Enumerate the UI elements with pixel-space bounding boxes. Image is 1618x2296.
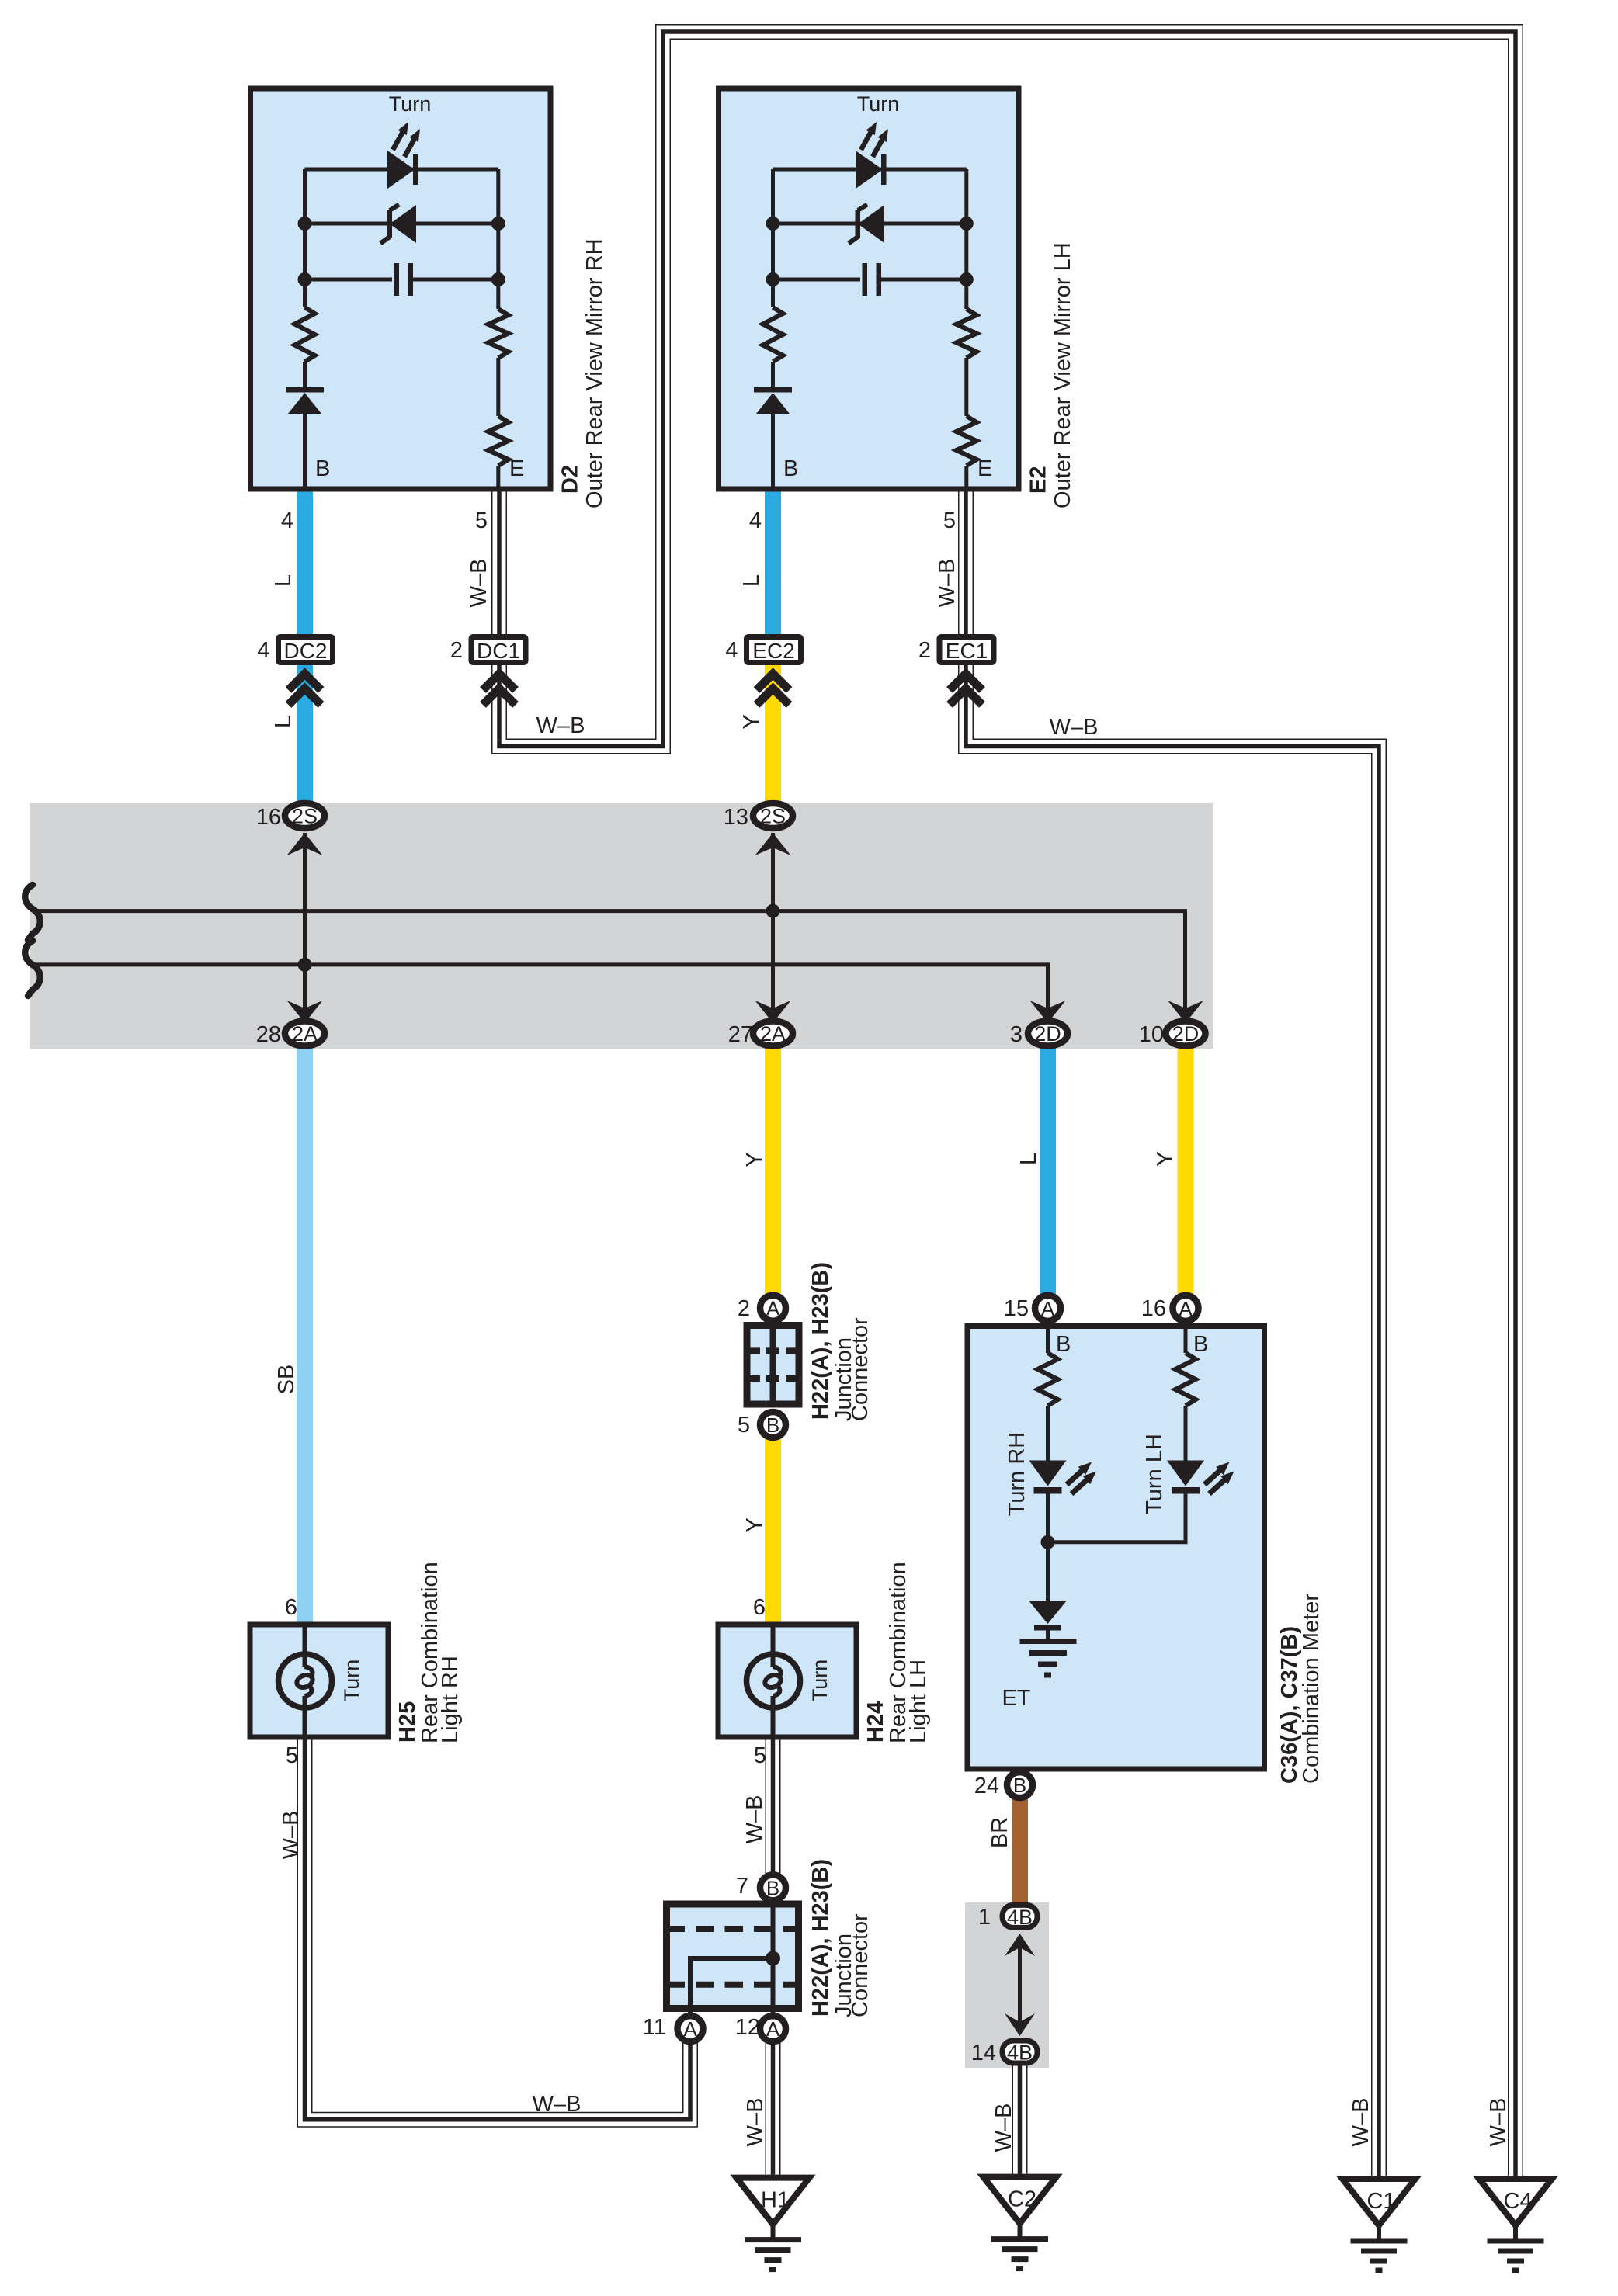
junction node on upper bus bbox=[766, 904, 780, 918]
svg-text:4: 4 bbox=[257, 638, 269, 663]
svg-text:W–B: W–B bbox=[742, 1795, 767, 1844]
svg-text:27: 27 bbox=[728, 1022, 753, 1047]
connector DC2 (pin 4) bbox=[257, 637, 332, 664]
svg-text:C1: C1 bbox=[1366, 2189, 1395, 2214]
ground H1 bbox=[737, 2178, 810, 2270]
svg-text:W–B: W–B bbox=[1486, 2098, 1511, 2147]
wire Y from 2D pin 10 to combination meter pin 16 bbox=[1178, 1034, 1194, 1309]
wire L from E2 pin 4 to connector EC2 bbox=[765, 489, 781, 650]
svg-text:W–B: W–B bbox=[935, 559, 960, 608]
svg-text:2S: 2S bbox=[292, 805, 318, 828]
internal ground in meter bbox=[1020, 1642, 1077, 1676]
svg-text:Turn RH: Turn RH bbox=[1005, 1432, 1029, 1517]
arrow into 2S pin 16 bbox=[287, 833, 323, 855]
connector 2S (pin 16) bbox=[285, 803, 325, 828]
svg-text:Combination Meter: Combination Meter bbox=[1299, 1594, 1324, 1784]
junction connector pin A (12) bbox=[760, 2016, 786, 2041]
svg-text:L: L bbox=[271, 574, 296, 587]
svg-text:L: L bbox=[1016, 1153, 1041, 1165]
svg-text:Y: Y bbox=[1153, 1151, 1178, 1166]
bus wire upper (2S-13 to 2D-10) bbox=[34, 911, 1186, 1023]
svg-text:BR: BR bbox=[988, 1817, 1012, 1848]
svg-text:3: 3 bbox=[1010, 1022, 1023, 1047]
meter pin B (24, ET) bbox=[1007, 1772, 1033, 1798]
wire resistor to LED turn LH bbox=[1184, 1406, 1188, 1462]
svg-text:B: B bbox=[1013, 1774, 1026, 1797]
svg-text:4: 4 bbox=[725, 638, 738, 663]
junction connector H22(A) H23(B) upper block bbox=[747, 1326, 799, 1405]
svg-text:2A: 2A bbox=[760, 1022, 786, 1046]
connector DC1 (pin 2) bbox=[450, 637, 526, 664]
junction connector pin A (2) bbox=[760, 1295, 786, 1321]
chevron arrow below EC2 bbox=[757, 674, 790, 705]
svg-text:W–B: W–B bbox=[743, 2098, 768, 2147]
ground C1 bbox=[1342, 2179, 1415, 2270]
svg-text:5: 5 bbox=[475, 508, 488, 533]
svg-text:H25: H25 bbox=[395, 1701, 420, 1743]
svg-text:4B: 4B bbox=[1007, 1906, 1033, 1929]
chevron arrow below DC2 bbox=[289, 674, 321, 705]
svg-text:4B: 4B bbox=[1007, 2041, 1033, 2065]
svg-text:B: B bbox=[1056, 1332, 1071, 1357]
connector EC2 (pin 4) bbox=[725, 637, 800, 664]
svg-text:A: A bbox=[683, 2017, 697, 2041]
svg-text:2D: 2D bbox=[1034, 1022, 1061, 1046]
wire Y from junction connector pin 5 to H24 pin 6 bbox=[765, 1425, 781, 1627]
svg-text:Light LH: Light LH bbox=[906, 1660, 931, 1743]
svg-text:Y: Y bbox=[739, 714, 764, 729]
svg-text:H1: H1 bbox=[761, 2188, 790, 2213]
connector 2A (pin 27) bbox=[753, 1021, 793, 1046]
svg-text:16: 16 bbox=[1141, 1296, 1166, 1321]
svg-text:B: B bbox=[1193, 1332, 1208, 1357]
connector 4B (pin 1) bbox=[1002, 1905, 1037, 1929]
band wire 2S-13 to 2A-27 bbox=[771, 833, 775, 1023]
svg-text:L: L bbox=[739, 574, 764, 587]
junction connector H22(A) H23(B) lower block bbox=[667, 1888, 799, 2029]
wire BR from combination meter pin 24 to connector 1 4B bbox=[1012, 1785, 1028, 1916]
svg-text:12: 12 bbox=[735, 2015, 760, 2040]
combination meter block C36(A) C37(B) bbox=[967, 1323, 1265, 1769]
svg-text:16: 16 bbox=[256, 805, 281, 830]
ground C4 bbox=[1479, 2179, 1552, 2270]
connector 2D (pin 10) bbox=[1166, 1021, 1206, 1046]
svg-text:A: A bbox=[766, 1297, 780, 1320]
connector 2S (pin 13) bbox=[753, 803, 793, 828]
junction connector pin B (7) bbox=[760, 1875, 786, 1900]
connector EC1 (pin 2) bbox=[918, 637, 994, 664]
svg-text:5: 5 bbox=[943, 508, 956, 533]
svg-text:1: 1 bbox=[978, 1905, 991, 1930]
wire W-B from junction connector pin 12 to ground H1 bbox=[766, 2029, 781, 2175]
junction connector pin B (5) bbox=[760, 1412, 786, 1438]
connector 2A (pin 28) bbox=[285, 1021, 325, 1046]
svg-text:A: A bbox=[1041, 1297, 1055, 1320]
svg-text:A: A bbox=[1179, 1297, 1193, 1320]
arrow into 2S pin 13 bbox=[755, 833, 791, 855]
shielded harness band bbox=[30, 803, 1213, 1049]
svg-text:Outer Rear View Mirror LH: Outer Rear View Mirror LH bbox=[1050, 242, 1075, 508]
svg-text:DC1: DC1 bbox=[477, 639, 520, 663]
wire Y from connector EC2 to 2S bbox=[765, 650, 781, 816]
resistor in meter turn LH circuit bbox=[1175, 1353, 1196, 1406]
connector 4B (pin 14) bbox=[1002, 2041, 1037, 2065]
arrow above 14 4B bbox=[1005, 2013, 1035, 2036]
svg-text:DC2: DC2 bbox=[283, 639, 327, 663]
svg-text:Y: Y bbox=[742, 1152, 767, 1167]
svg-text:2A: 2A bbox=[292, 1022, 318, 1046]
junction connector pin A (11) bbox=[678, 2016, 703, 2041]
svg-text:4: 4 bbox=[281, 508, 293, 533]
wire LED RH to junction bbox=[1046, 1488, 1050, 1542]
svg-text:EC1: EC1 bbox=[946, 639, 988, 663]
wire between 4B arrows bbox=[1018, 1947, 1022, 2023]
svg-text:EC2: EC2 bbox=[752, 639, 794, 663]
wire W-B from H25 pin 5 to junction connector pin 11 bbox=[305, 1737, 691, 2120]
wire LED LH to junction bbox=[1048, 1488, 1186, 1542]
svg-text:15: 15 bbox=[1004, 1296, 1029, 1321]
wire Y from 2A pin 27 to junction connector pin 2 bbox=[765, 1034, 781, 1309]
svg-text:W–B: W–B bbox=[991, 2104, 1016, 2152]
arrow into 2A pin 27 bbox=[755, 1001, 791, 1023]
svg-text:C4: C4 bbox=[1503, 2189, 1532, 2214]
LED turn RH in meter bbox=[1029, 1461, 1097, 1494]
svg-text:A: A bbox=[766, 2017, 780, 2041]
svg-text:H22(A), H23(B): H22(A), H23(B) bbox=[808, 1262, 833, 1420]
junction node in meter bbox=[1041, 1535, 1055, 1549]
rear combination light LH block H24 bbox=[718, 1595, 856, 1768]
svg-text:24: 24 bbox=[974, 1774, 999, 1798]
ground C2 bbox=[984, 2177, 1057, 2269]
svg-text:W–B: W–B bbox=[279, 1811, 304, 1860]
svg-text:W–B: W–B bbox=[533, 2092, 582, 2117]
svg-text:Turn LH: Turn LH bbox=[1142, 1434, 1167, 1514]
arrow into 2D pin 3 bbox=[1030, 1001, 1066, 1023]
bus wire lower (2S-16 to 2D-3) bbox=[34, 965, 1048, 1023]
svg-text:SB: SB bbox=[274, 1365, 299, 1395]
svg-text:7: 7 bbox=[736, 1874, 748, 1899]
svg-text:W–B: W–B bbox=[1050, 715, 1099, 740]
arrow into 2D pin 10 bbox=[1168, 1001, 1203, 1023]
svg-text:ET: ET bbox=[1002, 1686, 1030, 1711]
svg-text:2: 2 bbox=[738, 1296, 750, 1321]
svg-text:Light RH: Light RH bbox=[438, 1656, 463, 1743]
wire W-B from connector 14 4B to ground C2 bbox=[1012, 2052, 1028, 2174]
wire L from D2 pin 4 to connector DC2 and 2S bbox=[297, 489, 313, 816]
svg-text:W–B: W–B bbox=[467, 559, 491, 608]
meter pin A (15) bbox=[1035, 1295, 1061, 1321]
svg-text:5: 5 bbox=[738, 1413, 750, 1438]
wire junction to diode bbox=[1046, 1542, 1050, 1601]
svg-text:H24: H24 bbox=[863, 1701, 888, 1743]
svg-text:2D: 2D bbox=[1172, 1022, 1200, 1046]
outer rear view mirror LH block E2 bbox=[719, 88, 1019, 489]
svg-text:2S: 2S bbox=[760, 805, 786, 828]
svg-text:B: B bbox=[766, 1413, 779, 1437]
shield box around 4B connectors bbox=[965, 1902, 1049, 2068]
svg-text:2: 2 bbox=[450, 638, 463, 663]
svg-text:Connector: Connector bbox=[848, 1317, 873, 1421]
svg-text:10: 10 bbox=[1139, 1022, 1164, 1047]
LED turn LH in meter bbox=[1167, 1461, 1234, 1494]
svg-text:13: 13 bbox=[724, 805, 748, 830]
chevron arrow below EC1 bbox=[950, 674, 982, 705]
wire SB from 2A pin 28 to H25 pin 6 bbox=[297, 1034, 313, 1627]
svg-text:Connector: Connector bbox=[848, 1913, 873, 2017]
meter pin A (16) bbox=[1173, 1295, 1199, 1321]
svg-text:4: 4 bbox=[749, 508, 762, 533]
wire L from 2D pin 3 to combination meter pin 15 bbox=[1040, 1034, 1056, 1309]
svg-text:11: 11 bbox=[643, 2015, 666, 2040]
svg-text:Y: Y bbox=[742, 1517, 767, 1532]
continuation squiggle upper-left bbox=[25, 885, 40, 940]
svg-text:H22(A), H23(B): H22(A), H23(B) bbox=[808, 1859, 833, 2017]
wire W-B from E2 pin 5 through EC1 to ground C1 bbox=[966, 491, 1379, 2176]
svg-text:L: L bbox=[271, 716, 296, 728]
svg-text:W–B: W–B bbox=[1349, 2098, 1373, 2147]
arrow below 1 4B bbox=[1005, 1934, 1035, 1956]
resistor in meter turn RH circuit bbox=[1038, 1353, 1058, 1406]
arrow into 2A pin 28 bbox=[287, 1001, 323, 1023]
svg-text:D2: D2 bbox=[558, 465, 583, 494]
svg-text:2: 2 bbox=[918, 638, 931, 663]
wire resistor to LED turn RH bbox=[1046, 1406, 1050, 1462]
svg-text:E2: E2 bbox=[1026, 466, 1051, 494]
outer rear view mirror RH block D2 bbox=[251, 88, 551, 489]
svg-text:28: 28 bbox=[256, 1022, 281, 1047]
chevron arrow below DC1 bbox=[483, 674, 516, 705]
band wire 2S-16 to 2A-28 bbox=[303, 833, 307, 1023]
diode in meter bbox=[1029, 1601, 1067, 1641]
connector 2D (pin 3) bbox=[1028, 1021, 1068, 1046]
rear combination light RH block H25 bbox=[250, 1595, 388, 1768]
svg-text:Outer Rear View Mirror RH: Outer Rear View Mirror RH bbox=[582, 238, 607, 508]
svg-text:C2: C2 bbox=[1008, 2187, 1036, 2212]
continuation squiggle lower-left bbox=[25, 941, 40, 996]
svg-text:B: B bbox=[766, 1876, 779, 1899]
svg-text:14: 14 bbox=[971, 2041, 996, 2065]
wire W-B from H24 pin 5 to junction connector pin 7 bbox=[766, 1737, 781, 1888]
junction node on lower bus bbox=[298, 958, 312, 972]
svg-text:W–B: W–B bbox=[536, 713, 585, 738]
wire W-B from D2 pin 5 through DC1 to ground C4 (routed over page top) bbox=[499, 32, 1516, 2176]
